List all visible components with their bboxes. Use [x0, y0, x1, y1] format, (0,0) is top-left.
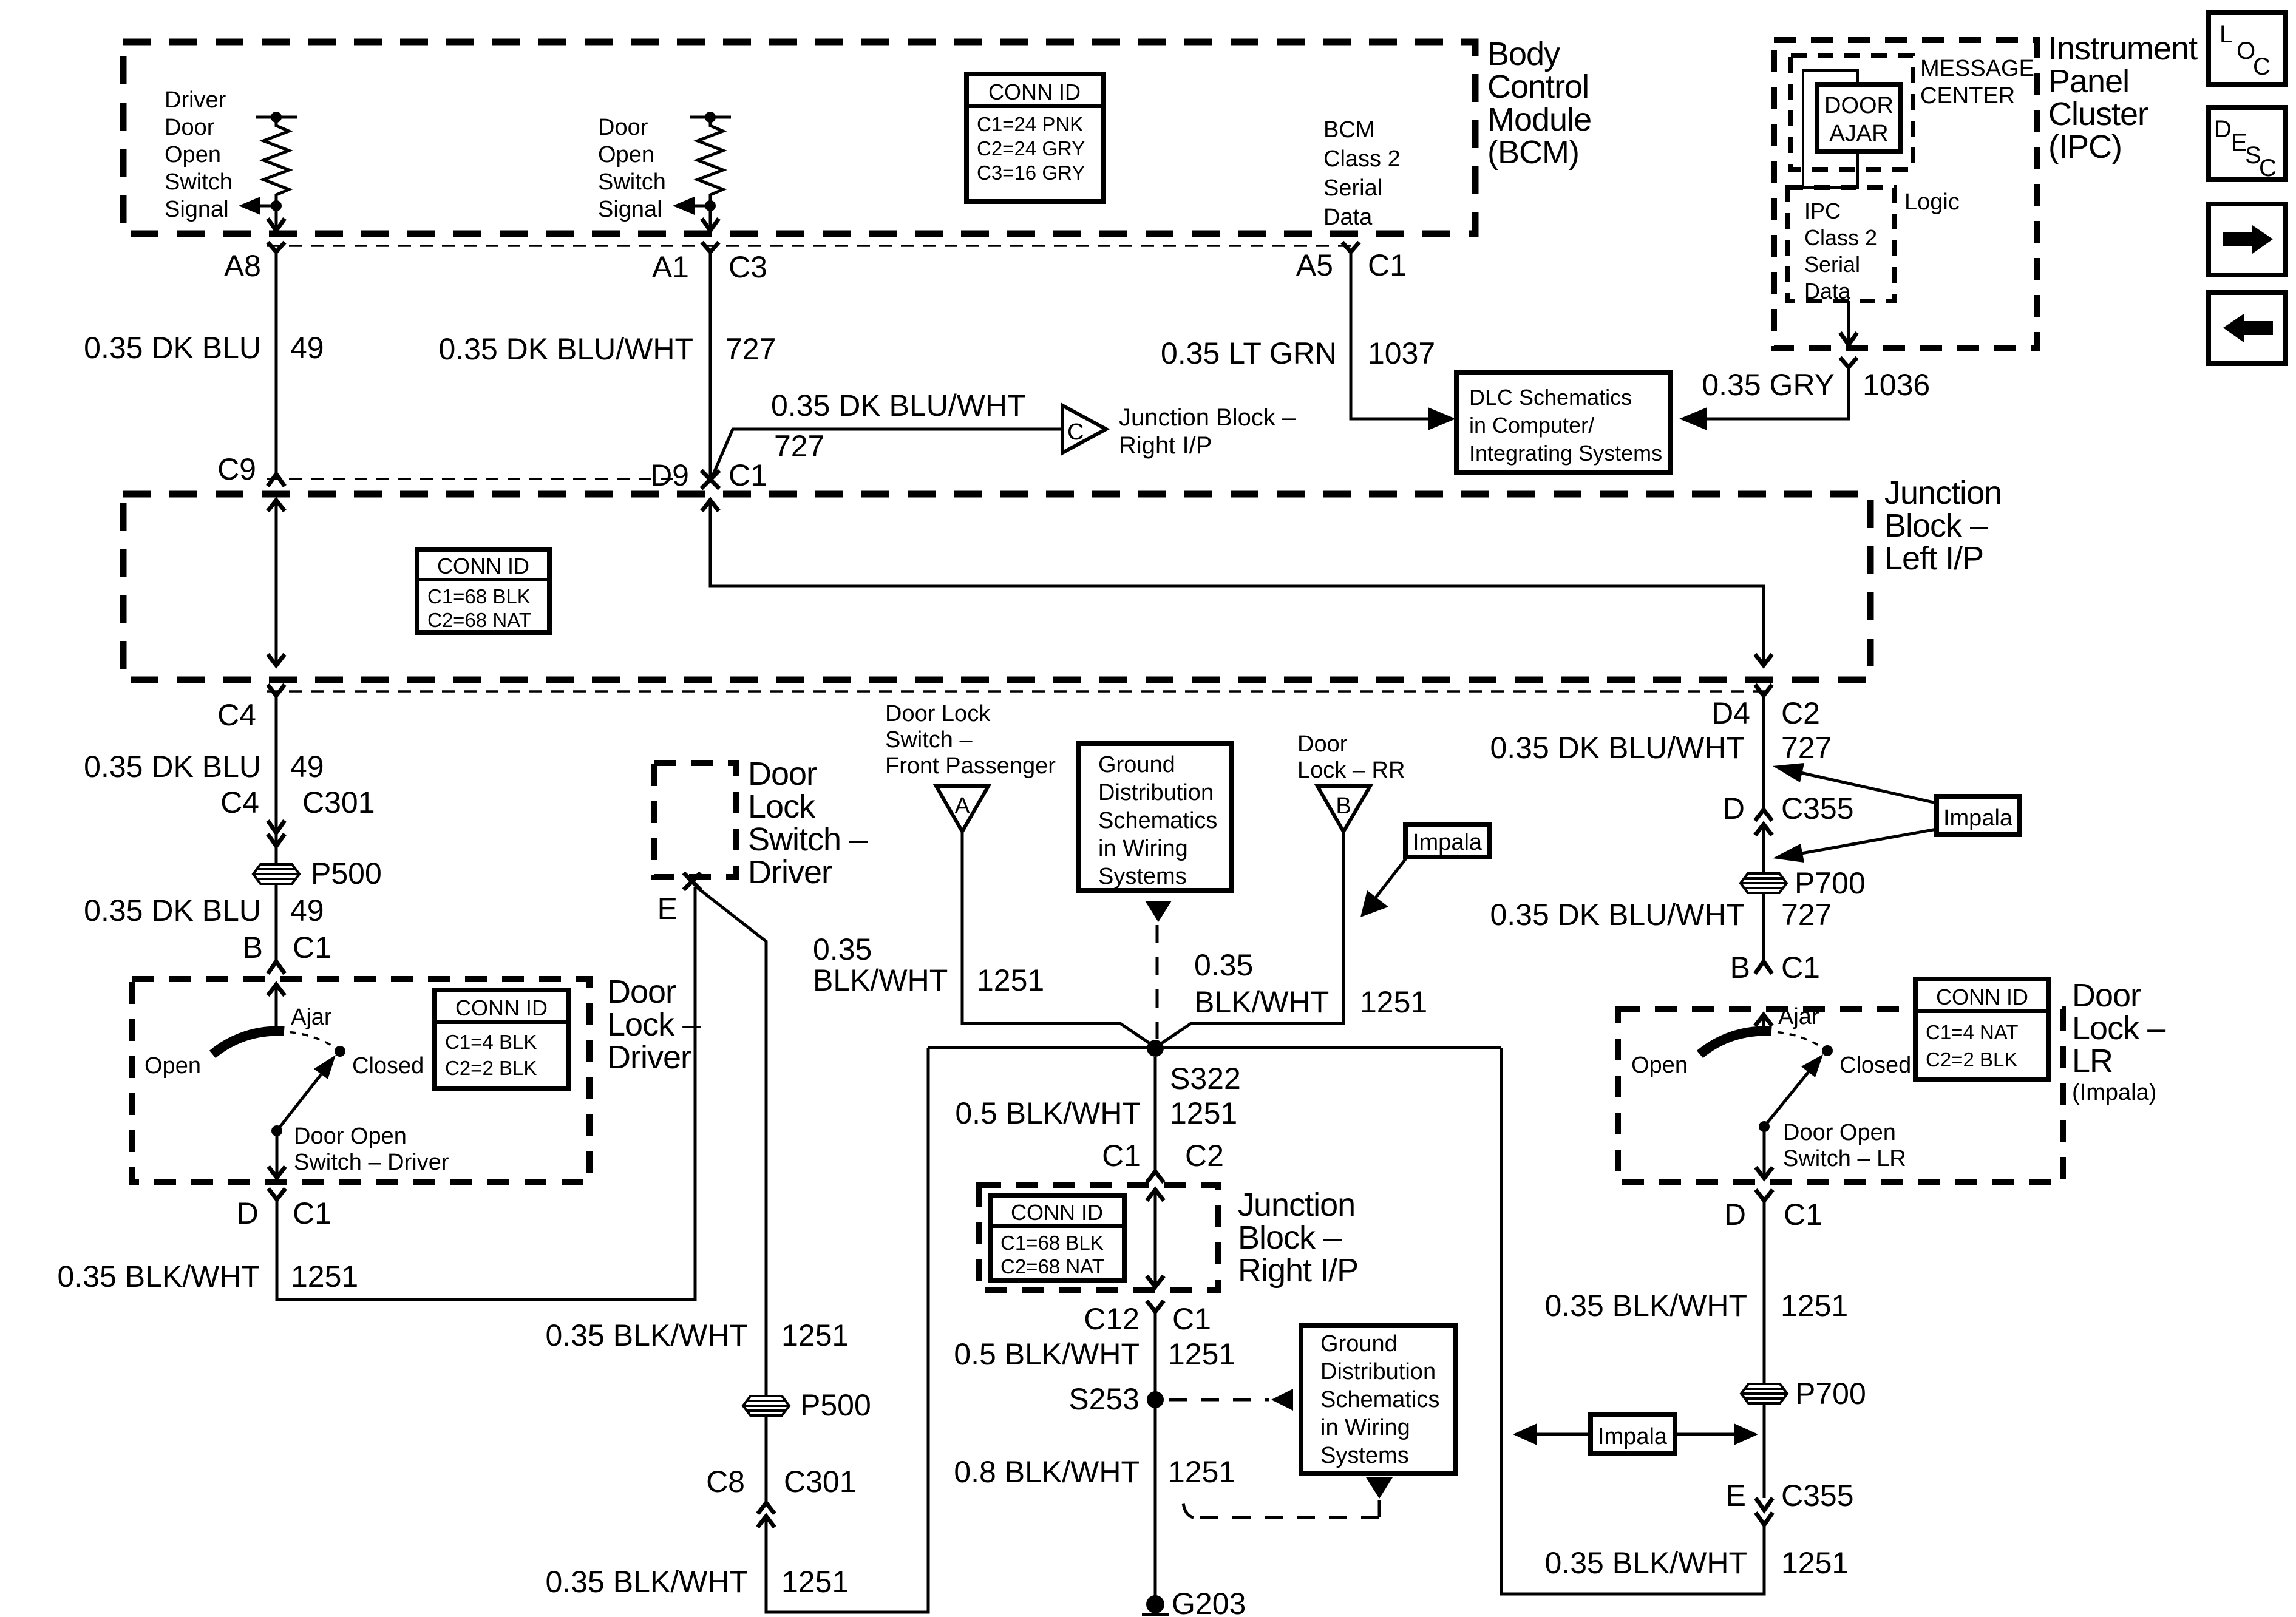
svg-text:Impala: Impala [1943, 805, 2013, 831]
label: Junction Block - Right I/P (reference) [1119, 404, 1296, 459]
svg-text:0.35 DK BLU: 0.35 DK BLU [84, 331, 261, 365]
wire: C8 down, right, up to ground header (0.35 BLK/WHT 1251) [766, 1048, 928, 1612]
svg-text:Switch – LR: Switch – LR [1783, 1146, 1906, 1171]
svg-text:Switch – Driver: Switch – Driver [294, 1150, 449, 1175]
door ajar switch (driver): thick arm to Open [212, 1031, 284, 1054]
DOOR AJAR indicator box [1817, 84, 1901, 151]
svg-text:C2=68 NAT: C2=68 NAT [427, 609, 531, 631]
svg-text:0.8 BLK/WHT: 0.8 BLK/WHT [954, 1455, 1140, 1489]
svg-text:C2=68 NAT: C2=68 NAT [1000, 1255, 1104, 1278]
signal arrow (left) at driver resistor [239, 197, 276, 215]
svg-text:C3: C3 [729, 250, 767, 284]
svg-text:Body: Body [1487, 36, 1560, 72]
svg-text:C1: C1 [1102, 1139, 1141, 1173]
svg-text:P700: P700 [1795, 1377, 1866, 1411]
svg-text:CONN ID: CONN ID [437, 554, 529, 578]
wire: C355 down to P700 [1762, 824, 1765, 874]
svg-text:0.5 BLK/WHT: 0.5 BLK/WHT [955, 1096, 1141, 1130]
svg-text:C1=68 BLK: C1=68 BLK [427, 585, 531, 608]
svg-text:B: B [1730, 951, 1750, 985]
wire inside junction block left: C9 to C4 with entry/exit arrows [268, 499, 285, 666]
triangle connector A (Door Lock Switch Front Passenger) [936, 786, 988, 832]
svg-text:727: 727 [725, 332, 776, 366]
MESSAGE CENTER label [1920, 56, 2034, 109]
CONN ID table (Junction Block Left) [417, 549, 549, 632]
svg-text:C1: C1 [729, 458, 767, 492]
pigtail P500 (lower, body side) [743, 1396, 789, 1415]
svg-text:Switch: Switch [598, 169, 666, 195]
pigtail P700 (lower) [1741, 1384, 1787, 1403]
MESSAGE CENTER dashed box [1791, 56, 1913, 169]
wire label 0.35 / BLK/WHT / 1251 [1194, 948, 1427, 1019]
CONN ID table (Door Lock LR) [1915, 979, 2049, 1080]
svg-text:Open: Open [165, 142, 221, 168]
svg-text:Open: Open [1631, 1053, 1688, 1078]
svg-text:(Impala): (Impala) [2072, 1080, 2156, 1105]
svg-text:CONN ID: CONN ID [455, 995, 548, 1020]
svg-text:0.35: 0.35 [813, 932, 872, 966]
svg-text:Closed: Closed [1839, 1053, 1911, 1078]
signal arrow (left) at passenger resistor [673, 197, 710, 215]
svg-text:Distribution: Distribution [1320, 1359, 1436, 1385]
triangle connector B (Door Lock RR) [1317, 786, 1370, 832]
Junction Block - Right I/P title [1238, 1187, 1358, 1289]
pin A5 connector chevron [1342, 242, 1359, 252]
IPC Class 2 Serial Data dashed box [1787, 188, 1895, 301]
connector chevron below IPC box [1840, 358, 1857, 367]
svg-text:1251: 1251 [781, 1318, 849, 1352]
Door Lock Switch - Front Passenger label [885, 701, 1056, 779]
svg-text:DLC Schematics: DLC Schematics [1469, 385, 1632, 410]
svg-text:CONN ID: CONN ID [988, 80, 1081, 104]
Door Open Switch - Driver label [294, 1124, 449, 1175]
svg-text:Impala: Impala [1598, 1424, 1668, 1449]
Junction Block - Right I/P dashed box [979, 1185, 1218, 1290]
splice S322 junction dot [1147, 1040, 1164, 1057]
wire: D/C1 down to P700 (0.35 BLK/WHT 1251) [1763, 1201, 1766, 1385]
IPC title text [2048, 30, 2198, 165]
svg-text:Left I/P: Left I/P [1884, 540, 1983, 577]
wire: driver resistor down to BCM edge with open arrowhead [268, 206, 285, 231]
wire: IPC serial data down to edge with open arrowhead [1840, 301, 1857, 345]
svg-text:Signal: Signal [598, 197, 662, 222]
svg-text:0.35 DK BLU: 0.35 DK BLU [84, 750, 261, 784]
BCM title text [1487, 36, 1591, 171]
svg-text:Logic: Logic [1904, 189, 1960, 215]
svg-text:IPC: IPC [1804, 198, 1841, 223]
svg-text:0.35 GRY: 0.35 GRY [1702, 368, 1835, 402]
svg-text:C355: C355 [1781, 1479, 1854, 1513]
DESC icon box [2209, 107, 2286, 181]
switch common contact dot [271, 1125, 282, 1136]
svg-text:Schematics: Schematics [1320, 1387, 1439, 1412]
svg-text:1251: 1251 [291, 1259, 358, 1293]
svg-text:0.35 LT GRN: 0.35 LT GRN [1161, 336, 1337, 370]
svg-text:Ajar: Ajar [291, 1005, 332, 1030]
svg-text:S322: S322 [1170, 1062, 1241, 1096]
svg-text:B: B [1336, 793, 1351, 819]
connector X at D9/C1 [701, 470, 719, 489]
svg-text:E: E [657, 892, 678, 926]
svg-text:Schematics: Schematics [1098, 808, 1217, 833]
connector chevron below Door Lock LR box at D [1756, 1190, 1773, 1201]
svg-text:C1: C1 [1781, 951, 1820, 985]
wire: IPC down then left into DLC reference (0.35 GRY 1036) [1679, 367, 1849, 430]
wire through junction block right with entry/exit arrows [1147, 1188, 1164, 1288]
svg-text:(BCM): (BCM) [1487, 134, 1579, 171]
svg-text:E: E [1726, 1479, 1746, 1513]
svg-text:in Wiring: in Wiring [1320, 1415, 1410, 1440]
svg-text:1251: 1251 [781, 1565, 849, 1599]
svg-text:Block –: Block – [1238, 1219, 1342, 1256]
svg-text:Systems: Systems [1320, 1443, 1409, 1468]
right-arrow icon box [2209, 204, 2286, 275]
svg-text:1251: 1251 [1170, 1096, 1237, 1130]
svg-text:CONN ID: CONN ID [1936, 985, 2028, 1009]
svg-text:49: 49 [290, 750, 324, 784]
svg-text:1251: 1251 [1360, 985, 1427, 1019]
connector chevron above junction block right [1147, 1171, 1164, 1182]
svg-text:0.35: 0.35 [1194, 948, 1253, 982]
svg-text:Lock –: Lock – [2072, 1010, 2165, 1046]
Door Lock - LR title [2072, 977, 2165, 1105]
wire: switch common down to D pin with down arrow [268, 1131, 285, 1179]
svg-text:BLK/WHT: BLK/WHT [1194, 985, 1329, 1019]
svg-text:C1=68 BLK: C1=68 BLK [1000, 1232, 1104, 1254]
svg-text:Serial: Serial [1323, 175, 1382, 201]
svg-text:0.35 DK BLU/WHT: 0.35 DK BLU/WHT [1490, 731, 1745, 765]
wire: P500 down to C8/C301 [765, 1415, 768, 1504]
svg-text:P700: P700 [1795, 866, 1866, 900]
svg-text:0.35 BLK/WHT: 0.35 BLK/WHT [546, 1565, 748, 1599]
svg-text:in Wiring: in Wiring [1098, 836, 1188, 861]
svg-text:C4: C4 [220, 785, 259, 819]
svg-text:Right I/P: Right I/P [1119, 432, 1212, 459]
left-arrow icon box [2209, 293, 2286, 364]
svg-text:Systems: Systems [1098, 864, 1187, 889]
connector C355 double chevron (pointing down) [1756, 1498, 1773, 1525]
connector line (thin dashed) C4-D4 [267, 690, 1773, 693]
wire: C12 down to S253 (0.5 BLK/WHT 1251) [1154, 1312, 1157, 1604]
dashed reference wire to S322 [1156, 925, 1159, 1039]
connector chevron below box at D4 [1755, 685, 1772, 696]
Impala callout at C355 (double pointer) [1773, 763, 2019, 863]
svg-text:C2=2 BLK: C2=2 BLK [445, 1057, 537, 1079]
svg-text:C4: C4 [217, 698, 256, 732]
svg-text:LR: LR [2072, 1043, 2113, 1079]
svg-text:0.35 DK BLU: 0.35 DK BLU [84, 893, 261, 927]
svg-text:Serial: Serial [1804, 252, 1860, 277]
svg-text:Module: Module [1487, 101, 1591, 138]
svg-text:Distribution: Distribution [1098, 780, 1214, 805]
svg-text:C355: C355 [1781, 792, 1854, 825]
svg-text:Door Lock: Door Lock [885, 701, 991, 727]
Closed contact dot [335, 1046, 345, 1057]
svg-text:Open: Open [144, 1053, 201, 1079]
connector chevron above Door Lock LR box [1755, 961, 1772, 974]
wire: C4 down to P500 (0.35 DK BLU 49) [275, 696, 278, 864]
svg-text:Panel: Panel [2048, 63, 2129, 100]
svg-text:CONN ID: CONN ID [1011, 1200, 1103, 1225]
svg-text:AJAR: AJAR [1829, 121, 1888, 146]
svg-text:A8: A8 [224, 249, 261, 283]
svg-text:Lock – RR: Lock – RR [1297, 758, 1405, 783]
svg-text:D: D [1723, 792, 1745, 825]
reference triangle below ground box (upper) [1145, 901, 1172, 922]
Door Lock Switch - Driver dashed box [654, 763, 736, 877]
svg-text:C8: C8 [706, 1465, 745, 1499]
connector line (thin dashed) under BCM: C3/C1 [267, 245, 1359, 247]
svg-text:727: 727 [1781, 731, 1832, 765]
svg-text:49: 49 [290, 893, 324, 927]
svg-text:Signal: Signal [165, 197, 229, 222]
CONN ID table (Junction Block Right) [990, 1196, 1124, 1281]
wire: A8 down to C9 (0.35 DK BLU 49) [275, 252, 278, 473]
Door Lock - LR dashed box [1618, 1009, 2063, 1182]
resistor R-driver-door-open-switch (pull-up inside BCM) [256, 112, 297, 211]
svg-text:Ajar: Ajar [1778, 1004, 1819, 1029]
ground header wire across (S322 horizontal) [928, 1046, 1501, 1049]
svg-text:Door: Door [165, 115, 215, 140]
svg-text:Door: Door [598, 115, 648, 140]
svg-text:C: C [2259, 155, 2277, 181]
pigtail P700 (upper) [1741, 873, 1787, 893]
svg-text:Ground: Ground [1098, 752, 1175, 778]
wire: switch common down to D pin with down arrow [1756, 1127, 1773, 1179]
wire: P500 down to B (0.35 DK BLU 49) [275, 884, 278, 960]
IPC Class 2 Serial Data label [1804, 198, 1877, 303]
svg-text:1251: 1251 [1781, 1546, 1849, 1580]
svg-text:D9: D9 [650, 458, 689, 492]
wire: passenger resistor down to BCM edge with open arrowhead [702, 206, 719, 231]
svg-text:C2: C2 [1781, 696, 1820, 730]
svg-text:Closed: Closed [352, 1053, 424, 1079]
svg-text:Door: Door [607, 974, 676, 1010]
node C9 chevron above junction block [268, 474, 285, 486]
wire from A down to splice S322 (0.35 BLK/WHT 1251) [962, 832, 1152, 1045]
wire: S322 down to junction block right (0.5 BLK/WHT 1251) [1154, 1057, 1157, 1170]
svg-text:C2=2 BLK: C2=2 BLK [1926, 1048, 2017, 1071]
connector C301 double chevron [268, 821, 285, 846]
Door Lock - RR label [1297, 731, 1405, 783]
Body Control Module (BCM) dashed box [123, 42, 1475, 234]
svg-text:C1: C1 [1784, 1198, 1822, 1232]
svg-text:Door Open: Door Open [1783, 1120, 1896, 1145]
connector C301 double chevron (pointing up) [758, 1503, 775, 1527]
svg-text:C1: C1 [1172, 1302, 1211, 1336]
svg-text:0.35 BLK/WHT: 0.35 BLK/WHT [1545, 1289, 1747, 1323]
svg-text:Front Passenger: Front Passenger [885, 753, 1056, 779]
CONN ID table (BCM) [966, 74, 1103, 202]
svg-text:C2=24 GRY: C2=24 GRY [977, 137, 1085, 160]
DLC Schematics reference box [1456, 372, 1670, 472]
label: Driver Door Open Switch Signal [165, 87, 233, 222]
svg-text:1251: 1251 [1168, 1337, 1235, 1371]
svg-text:B: B [243, 931, 263, 964]
svg-text:Driver: Driver [748, 854, 832, 890]
svg-text:Junction: Junction [1884, 475, 2002, 511]
reference triangle below ground box (lower) [1366, 1477, 1393, 1499]
svg-text:C: C [1067, 419, 1084, 445]
svg-text:BLK/WHT: BLK/WHT [813, 963, 948, 997]
door ajar switch (LR): thick arm to Open [1700, 1031, 1771, 1054]
svg-text:Switch: Switch [165, 169, 233, 195]
wire: P700 down to E/C355 [1763, 1402, 1766, 1498]
wire: B pin into switch pivot with up arrow [1755, 1014, 1772, 1032]
Door Lock - Driver dashed box [132, 979, 589, 1182]
dashed reference wire from triangle to ground wire [1183, 1498, 1379, 1517]
svg-text:(IPC): (IPC) [2048, 129, 2122, 165]
Door Lock Switch - Driver title [748, 756, 868, 890]
svg-text:C301: C301 [302, 785, 375, 819]
svg-text:Switch –: Switch – [885, 727, 973, 753]
resistor R-door-open-switch (second, inside BCM) [690, 112, 731, 211]
CONN ID table (Door Lock Driver) [435, 990, 568, 1088]
svg-text:L: L [2220, 21, 2233, 48]
Door Open Switch - LR label [1783, 1120, 1906, 1171]
Ground Distribution Schematics reference box (upper) [1078, 744, 1232, 890]
svg-text:D4: D4 [1711, 696, 1750, 730]
svg-text:Driver: Driver [165, 87, 226, 113]
svg-text:Lock –: Lock – [607, 1006, 701, 1043]
svg-text:Class 2: Class 2 [1804, 225, 1877, 250]
svg-text:C1: C1 [293, 1196, 331, 1230]
wire: E diagonal down to ground drop [697, 887, 766, 1396]
pin A8 connector chevron [268, 242, 285, 252]
wire: D/C1 down, right and up to splice E (0.35 BLK/WHT 1251) [277, 887, 695, 1300]
switch common contact dot [1759, 1121, 1770, 1132]
svg-text:C1=24 PNK: C1=24 PNK [977, 113, 1083, 135]
svg-text:Junction Block –: Junction Block – [1119, 404, 1296, 431]
svg-text:C1=4 BLK: C1=4 BLK [445, 1031, 537, 1053]
wire: E down and left to ground return (0.35 BLK/WHT 1251) [1501, 1048, 1764, 1594]
display stack rectangle behind DOOR AJAR [1803, 70, 1858, 188]
svg-text:D: D [237, 1196, 259, 1230]
wire: B pin into switch pivot with up arrow [268, 983, 285, 1033]
svg-text:P500: P500 [311, 856, 382, 890]
svg-text:G203: G203 [1172, 1587, 1246, 1617]
svg-text:0.35 BLK/WHT: 0.35 BLK/WHT [546, 1318, 748, 1352]
svg-text:0.35 DK BLU/WHT: 0.35 DK BLU/WHT [1490, 898, 1745, 932]
svg-text:Door: Door [2072, 977, 2141, 1014]
branch wire from D9 to junction block right reference (0.35 DK BLU/WHT 727) [712, 429, 1062, 478]
svg-text:in Computer/: in Computer/ [1469, 413, 1594, 438]
svg-text:D: D [2214, 116, 2232, 143]
wire: D4 down to C355 (0.35 DK BLU/WHT 727) [1762, 696, 1765, 810]
Ground Distribution Schematics reference box (lower) [1301, 1326, 1455, 1474]
svg-text:MESSAGE: MESSAGE [1920, 56, 2034, 81]
svg-text:P500: P500 [800, 1388, 871, 1422]
LOC icon box [2209, 12, 2286, 84]
svg-text:C9: C9 [217, 452, 256, 486]
connector chevron above Door Lock Driver box [268, 961, 285, 974]
svg-text:S253: S253 [1068, 1382, 1140, 1416]
svg-text:C12: C12 [1084, 1302, 1140, 1336]
svg-text:Door Open: Door Open [294, 1124, 407, 1149]
svg-text:0.35 DK BLU/WHT: 0.35 DK BLU/WHT [771, 388, 1026, 422]
svg-text:Integrating Systems: Integrating Systems [1469, 441, 1662, 466]
connector chevron below junction block right at C12 [1147, 1301, 1164, 1312]
svg-text:Door: Door [1297, 731, 1348, 757]
svg-text:49: 49 [290, 331, 324, 365]
label: BCM Class 2 Serial Data [1323, 117, 1401, 230]
svg-text:1251: 1251 [1781, 1289, 1848, 1323]
wire: A1/C3 down to D9 (0.35 DK BLU/WHT 727) [709, 252, 712, 480]
svg-text:Block –: Block – [1884, 507, 1988, 544]
svg-text:C1: C1 [293, 931, 331, 964]
svg-text:Data: Data [1323, 205, 1373, 230]
pin A1 connector chevron [702, 242, 719, 252]
connector line (thin dashed) C9-D9 [267, 478, 681, 480]
svg-text:Driver: Driver [607, 1039, 691, 1076]
svg-text:A1: A1 [652, 250, 689, 284]
svg-text:C2: C2 [1185, 1139, 1224, 1173]
svg-text:Open: Open [598, 142, 654, 168]
label: Door Open Switch Signal (passenger) [598, 115, 666, 222]
svg-text:Junction: Junction [1238, 1187, 1355, 1223]
Junction Block - Left I/P dashed box [123, 494, 1870, 680]
svg-text:Instrument: Instrument [2048, 30, 2198, 67]
svg-text:0.35 DK BLU/WHT: 0.35 DK BLU/WHT [438, 332, 693, 366]
svg-text:727: 727 [1781, 898, 1832, 932]
svg-text:1036: 1036 [1863, 368, 1930, 402]
svg-text:0.35 BLK/WHT: 0.35 BLK/WHT [58, 1259, 260, 1293]
svg-text:Right I/P: Right I/P [1238, 1252, 1358, 1289]
wire: P700 down to B pin (0.35 DK BLU/WHT 727) [1762, 892, 1765, 961]
wire inside junction block left: D9 down, right, down to D4 [702, 499, 1772, 666]
svg-text:C3=16 GRY: C3=16 GRY [977, 161, 1085, 184]
svg-text:Lock: Lock [748, 788, 816, 825]
svg-text:Door: Door [748, 756, 817, 792]
arrow from common contact to Closed [277, 1055, 336, 1131]
wire: A5/C1 down then right into DLC reference (0.35 LT GRN 1037) [1351, 252, 1456, 430]
dashed throw arc to Closed [1765, 1032, 1822, 1048]
svg-text:1251: 1251 [1168, 1455, 1235, 1489]
pigtail P500 (driver door) [253, 864, 299, 884]
svg-text:C301: C301 [784, 1465, 857, 1499]
arrow from common contact to Closed [1764, 1054, 1823, 1127]
dashed reference from S253 to ground box (arrow) [1169, 1389, 1293, 1411]
connector C355 double chevron (pointing up) [1755, 810, 1772, 835]
svg-text:Impala: Impala [1413, 830, 1483, 855]
svg-text:Switch –: Switch – [748, 821, 868, 858]
splice S253 dot [1147, 1391, 1164, 1408]
svg-text:A5: A5 [1296, 248, 1333, 282]
svg-text:D: D [1724, 1198, 1746, 1232]
Impala callout (lower, double headed arrow) [1513, 1415, 1758, 1453]
svg-text:CENTER: CENTER [1920, 83, 2015, 109]
Door Lock - Driver title [607, 974, 701, 1076]
Instrument Panel Cluster (IPC) dashed box [1774, 40, 2037, 348]
wire label 0.35 / BLK/WHT / 1251 [813, 932, 1044, 997]
Junction Block - Left I/P title [1884, 475, 2002, 577]
svg-text:Cluster: Cluster [2048, 96, 2148, 132]
svg-text:BCM: BCM [1323, 117, 1374, 143]
svg-text:727: 727 [774, 429, 824, 463]
svg-text:0.5 BLK/WHT: 0.5 BLK/WHT [954, 1337, 1140, 1371]
svg-text:1037: 1037 [1368, 336, 1435, 370]
svg-text:C: C [2253, 53, 2271, 80]
svg-text:A: A [954, 793, 970, 819]
dashed throw arc to Closed [278, 1032, 335, 1048]
svg-text:0.35 BLK/WHT: 0.35 BLK/WHT [1545, 1546, 1747, 1580]
triangle connector C (to Junction Block Right I/P) [1062, 405, 1106, 453]
svg-text:C1: C1 [1368, 248, 1407, 282]
svg-text:Class 2: Class 2 [1323, 146, 1401, 172]
svg-text:1251: 1251 [977, 963, 1044, 997]
svg-text:Control: Control [1487, 69, 1589, 105]
connector chevron below box at C4 [268, 685, 285, 696]
